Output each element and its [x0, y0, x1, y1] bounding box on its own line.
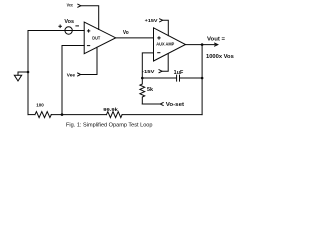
svg-text:Vcc: Vcc	[67, 3, 74, 8]
wire noninverting input (Vos line)	[28, 30, 84, 32]
node junction dot divider tap	[61, 113, 64, 116]
svg-text:Fig. 1: Simplified Opamp Test: Fig. 1: Simplified Opamp Test Loop	[66, 122, 153, 128]
label minus of Vos	[75, 25, 79, 27]
wire capacitor right lead	[180, 77, 202, 79]
wire bottom rail right	[122, 114, 202, 116]
node Vee connector chevron	[78, 73, 81, 76]
wire ground stub	[18, 72, 28, 75]
op-amp U1 DUT triangle	[84, 22, 116, 54]
wire left feedback vertical	[27, 31, 29, 115]
resistor R2 99.9k body	[107, 112, 123, 118]
svg-text:+15V: +15V	[145, 18, 159, 24]
svg-text:Vo: Vo	[123, 30, 129, 36]
wire right vertical output feedback	[201, 45, 203, 115]
node Vcc connector chevron	[78, 4, 81, 7]
node junction dot output tap	[201, 43, 204, 46]
wire Vo from DUT to AUX AMP	[116, 37, 154, 39]
svg-text:DUT: DUT	[92, 35, 100, 40]
wire bottom rail left	[28, 114, 35, 116]
svg-text:Vout =: Vout =	[207, 37, 226, 43]
node junction dot cap right	[201, 77, 204, 80]
capacitor-like source Vos circle	[65, 27, 72, 34]
label plus input AUX	[157, 37, 160, 39]
svg-text:AUX AMP: AUX AMP	[156, 42, 174, 47]
wire inverting input of DUT	[62, 46, 84, 115]
node junction dot AUX inverting/cap	[141, 77, 144, 80]
svg-text:99.9k: 99.9k	[103, 107, 118, 113]
svg-text:Vee: Vee	[67, 73, 76, 79]
svg-text:Vos: Vos	[64, 19, 74, 25]
node -15V connector chevron	[159, 70, 162, 73]
node junction dot ground tap	[27, 71, 30, 74]
wire Vo-set lead	[142, 103, 160, 105]
resistor R3 5k body	[140, 78, 145, 104]
svg-text:1000x Vos: 1000x Vos	[206, 54, 234, 60]
label plus input DUT	[87, 30, 90, 32]
node Vo-set connector chevron	[160, 103, 163, 106]
wire bottom rail middle	[51, 114, 106, 116]
capacitor C1 1uF plates	[176, 75, 178, 81]
svg-text:-15V: -15V	[142, 69, 155, 75]
wire Vee supply to DUT	[81, 47, 97, 74]
label minus input DUT	[87, 45, 90, 47]
svg-text:1uF: 1uF	[174, 70, 184, 76]
wire AUX AMP output to Vout	[186, 44, 217, 46]
wire capacitor left lead	[142, 77, 176, 79]
resistor R1 100 body	[35, 112, 51, 118]
wire Vcc supply to DUT	[81, 6, 99, 30]
wire +15V supply to AUX AMP	[163, 20, 169, 35]
label minus input AUX	[157, 52, 160, 54]
ground	[14, 75, 21, 81]
svg-text:Vo-set: Vo-set	[166, 102, 185, 108]
svg-text:5k: 5k	[147, 87, 153, 93]
node Vout arrowhead	[215, 43, 218, 46]
wire -15V supply to AUX AMP	[162, 54, 168, 71]
op-amp U2 AUX AMP triangle	[154, 28, 186, 61]
node +15V connector chevron	[160, 19, 163, 22]
wire inverting input of AUX AMP	[142, 53, 153, 78]
label plus of Vos	[58, 25, 62, 27]
svg-text:100: 100	[36, 102, 44, 108]
